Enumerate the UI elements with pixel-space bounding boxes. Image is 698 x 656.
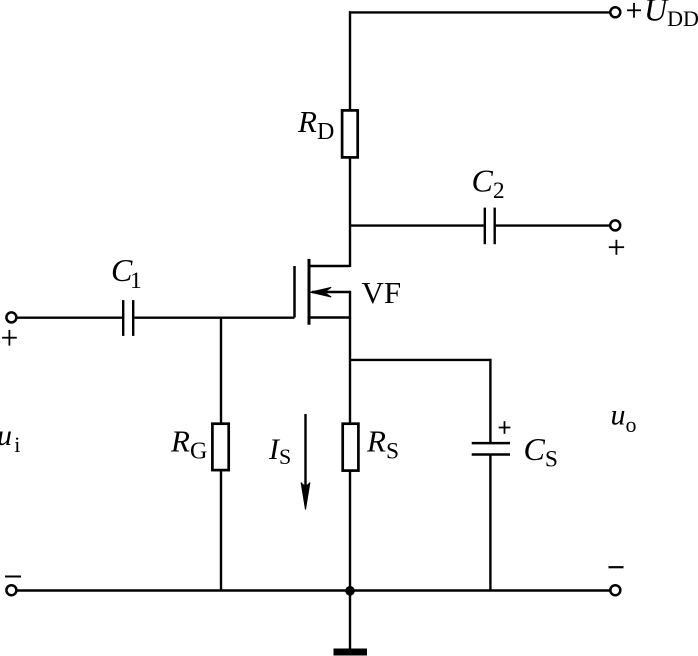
svg-text:RD: RD <box>297 104 334 145</box>
wire RG branch upper <box>220 318 222 425</box>
wire top rail to UDD terminal <box>349 11 611 13</box>
svg-text:CS: CS <box>524 431 558 472</box>
capacitor C2 <box>485 208 495 245</box>
wire input right segment to gate <box>134 317 294 319</box>
svg-text:IS: IS <box>268 433 291 469</box>
polarity minus right <box>609 566 624 568</box>
transistor VF <box>295 259 351 325</box>
current arrow IS <box>301 414 310 510</box>
svg-text:UDD: UDD <box>644 0 698 31</box>
capacitor C1 <box>123 300 133 336</box>
wire output branch <box>350 224 484 226</box>
svg-text:VF: VF <box>362 275 402 310</box>
svg-text:C1: C1 <box>111 252 142 294</box>
wire CS lower <box>489 455 491 591</box>
polarity plus output <box>609 240 624 255</box>
terminal output bottom <box>610 585 620 595</box>
wire bottom rail <box>16 589 610 591</box>
resistor RD <box>342 110 358 157</box>
wire drain vertical lower <box>349 158 351 268</box>
polarity plus UDD <box>627 3 641 18</box>
wire source to CS branch horizontal <box>350 359 490 361</box>
source stub <box>308 316 350 318</box>
wire input left segment <box>16 317 122 319</box>
junction dot source-ground <box>345 586 355 596</box>
wire drain vertical upper <box>349 11 351 110</box>
resistor RG <box>212 424 228 470</box>
svg-text:RS: RS <box>366 424 399 465</box>
terminal input top <box>6 312 16 322</box>
ground <box>334 591 368 653</box>
substrate arrow <box>310 287 331 297</box>
wire RS lower <box>349 470 351 591</box>
substrate stub <box>312 291 350 293</box>
wire source vertical <box>349 318 351 425</box>
wire substrate to source <box>349 291 351 319</box>
wire RG lower <box>220 470 222 591</box>
terminal input bottom <box>6 585 16 595</box>
resistor RS <box>343 424 359 471</box>
wire CS branch vertical upper <box>489 359 491 443</box>
wire C2 to output terminal <box>496 224 611 226</box>
svg-text:RG: RG <box>170 424 207 465</box>
capacitor CS <box>472 443 510 454</box>
terminal UDD <box>610 7 620 17</box>
gate electrode <box>293 266 296 318</box>
svg-text:uo: uo <box>611 398 637 437</box>
channel bar <box>308 259 311 325</box>
drain stub <box>308 265 350 267</box>
svg-text:ui: ui <box>0 419 20 457</box>
polarity plus CS <box>499 421 511 434</box>
terminal output top <box>610 220 620 230</box>
polarity minus left <box>5 576 21 578</box>
svg-text:C2: C2 <box>472 163 505 205</box>
polarity plus input <box>2 330 17 346</box>
